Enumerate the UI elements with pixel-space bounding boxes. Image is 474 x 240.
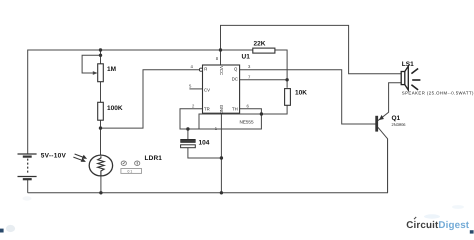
svg-text:0 1: 0 1 <box>128 169 133 173</box>
svg-text:104: 104 <box>199 140 210 147</box>
svg-text:LDR1: LDR1 <box>145 155 163 162</box>
svg-text:1M: 1M <box>107 66 116 73</box>
svg-text:NE555: NE555 <box>240 119 254 124</box>
svg-text:VCC: VCC <box>219 66 224 75</box>
svg-text:5V--10V: 5V--10V <box>41 153 67 160</box>
svg-text:LS1: LS1 <box>402 61 414 68</box>
svg-text:100K: 100K <box>107 105 123 112</box>
svg-text:2N3906: 2N3906 <box>392 122 407 127</box>
svg-text:Q1: Q1 <box>392 115 401 122</box>
svg-text:CV: CV <box>204 88 210 93</box>
svg-text:10K: 10K <box>295 90 307 97</box>
svg-text:GND: GND <box>219 105 224 115</box>
svg-text:22K: 22K <box>254 41 266 48</box>
svg-text:DC: DC <box>232 76 238 81</box>
svg-text:R: R <box>204 67 207 72</box>
svg-text:TH: TH <box>232 107 238 112</box>
svg-text:TR: TR <box>204 107 210 112</box>
svg-text:SPEAKER (25.OHM--0.5WATT): SPEAKER (25.OHM--0.5WATT) <box>402 90 474 95</box>
svg-text:U1: U1 <box>242 54 251 61</box>
svg-text:CircuitDigest: CircuitDigest <box>406 220 470 231</box>
